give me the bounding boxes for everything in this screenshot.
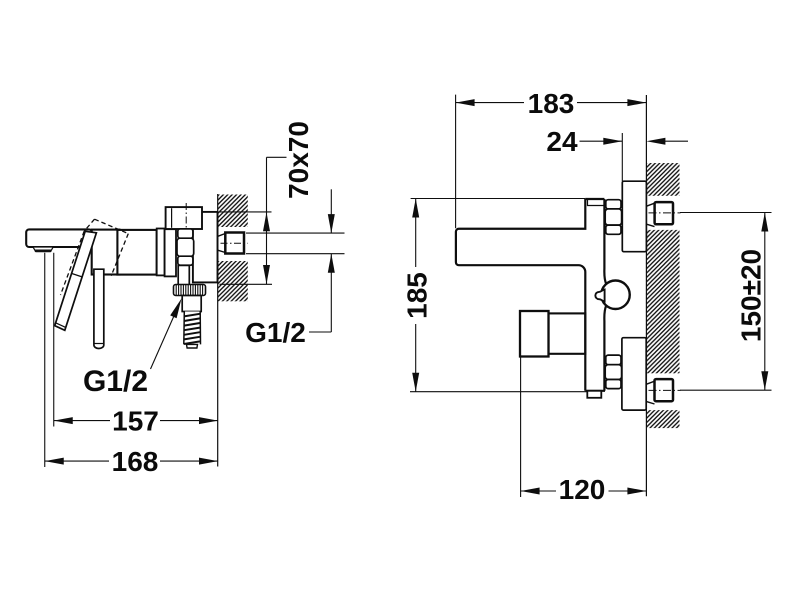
centerline top connector	[649, 212, 681, 214]
extension lines 157/168	[53, 253, 55, 427]
outlet stub below body right view	[587, 391, 601, 398]
arrows 120	[521, 488, 540, 495]
dashed rotated handle outline	[61, 219, 129, 295]
dimension 185	[415, 199, 417, 268]
svg-text:168: 168	[112, 446, 159, 477]
dimension 150±20	[764, 213, 766, 391]
arrows 168	[45, 458, 64, 465]
smooth nipple	[182, 296, 201, 312]
wall face line left view	[217, 194, 219, 467]
dimension 168	[45, 460, 109, 462]
aerator	[33, 247, 53, 250]
dimension 183	[456, 102, 524, 104]
threaded hose end	[184, 312, 201, 345]
extension lines 150±20	[680, 212, 772, 214]
body cylinder left view	[117, 230, 156, 275]
dimension 24	[580, 140, 623, 142]
extension line 183 left	[455, 95, 457, 229]
arrows 185	[412, 199, 419, 218]
top stop-valve piece left view	[166, 207, 202, 229]
dimension 120	[521, 490, 556, 492]
arrows 150±20	[761, 213, 768, 232]
G1/2 hose leader line	[151, 310, 177, 370]
arrows 183	[456, 99, 475, 106]
pipe cone top right view	[647, 203, 655, 226]
diverter knob tab	[595, 290, 604, 302]
handle connector right view	[549, 313, 586, 353]
svg-text:120: 120	[559, 474, 606, 505]
wall square connector top	[655, 202, 673, 224]
body top edge right view	[585, 198, 604, 200]
handle square right view	[520, 311, 549, 357]
extension lines 185	[411, 198, 586, 200]
body end part left view	[165, 229, 176, 276]
escutcheon plate top right view	[622, 181, 646, 252]
wall section right view	[647, 163, 680, 428]
svg-text:157: 157	[112, 406, 159, 437]
body right edge with diverter curves	[604, 199, 606, 391]
arrows 157	[54, 417, 73, 424]
extension line 120 left	[520, 357, 522, 497]
body bottom edge right view	[585, 390, 605, 392]
arrowheads	[45, 99, 769, 494]
extension lines from G1/2 square left view	[246, 232, 345, 234]
solid diagonal lever	[55, 231, 97, 330]
wall section left view	[218, 195, 248, 302]
arrows 70x70	[263, 212, 270, 231]
pipe cone through wall left view	[218, 234, 226, 253]
pipe cone bottom right view	[647, 381, 655, 404]
diverter circle	[601, 281, 630, 310]
wall square connector bottom	[655, 379, 674, 401]
dimension 157	[54, 420, 110, 422]
svg-text:70x70: 70x70	[283, 121, 314, 199]
solid vertical lever	[94, 269, 104, 348]
centerline of connector	[221, 242, 249, 244]
body outline right view: spout + body left edge	[456, 199, 585, 391]
dimension G1/2 square vertical line	[330, 189, 332, 233]
hex nut bottom right view	[606, 355, 621, 365]
dimension 70x70 vertical line and leader	[266, 157, 268, 284]
extension lines 70x70 plate left view	[220, 211, 272, 213]
escutcheon plate bottom right view	[622, 338, 646, 410]
G1/2 square connector left view	[225, 233, 244, 254]
escutcheon plate left view	[193, 212, 218, 283]
spout left view	[26, 229, 92, 247]
ring left view	[157, 229, 165, 276]
handle base block	[92, 230, 120, 275]
hose tip	[187, 344, 198, 348]
ribbed hose nut	[174, 285, 206, 296]
shower outlet stem	[178, 265, 189, 284]
centerline of top piece	[185, 203, 187, 232]
svg-text:183: 183	[528, 88, 575, 119]
arrows 24	[603, 138, 622, 145]
centerline bottom connector	[649, 389, 681, 391]
hex nut top right view	[606, 200, 621, 209]
svg-text:24: 24	[546, 126, 578, 157]
svg-text:G1/2: G1/2	[83, 365, 148, 398]
svg-text:185: 185	[402, 272, 433, 319]
svg-text:150±20: 150±20	[736, 249, 767, 342]
arrows G1/2 square dim	[328, 214, 335, 233]
svg-text:G1/2: G1/2	[245, 317, 306, 348]
arrow G1/2 hose leader	[170, 299, 181, 319]
wall face line right view	[645, 95, 647, 496]
hex nut left view	[178, 229, 193, 238]
